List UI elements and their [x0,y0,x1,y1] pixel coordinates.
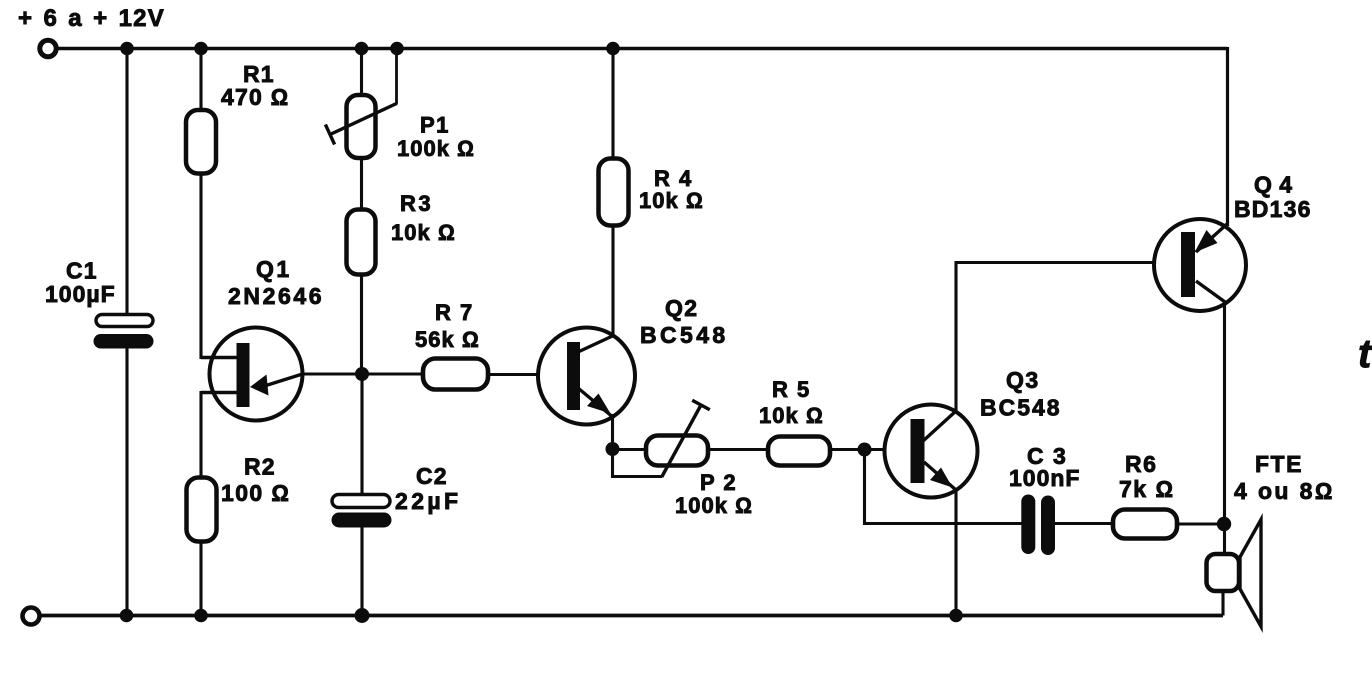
label R2 100ohm [221,454,290,507]
svg-text:+ 6 a + 12V: + 6 a + 12V [18,5,165,32]
svg-text:Q3: Q3 [1006,367,1040,393]
label R4 10k [639,166,704,213]
wire node to Q1 emitter [303,372,363,375]
transistor Q1 (UJT 2N2646) [201,328,303,421]
transistor Q2 BC548 [538,328,635,425]
svg-text:10k Ω: 10k Ω [639,188,704,213]
svg-text:100nF: 100nF [1009,465,1080,491]
wire node to speaker [1223,524,1226,554]
label R5 10k [759,377,824,428]
resistor R6 [1113,510,1177,539]
wire R4 to Q2 collector [611,226,614,337]
potentiometer P2 body [646,436,708,466]
svg-text:R2: R2 [244,454,276,480]
node top rail / R4 [606,42,620,56]
resistor R4 [599,159,629,226]
resistor R7 [423,359,488,390]
node top rail / P1 wiper [390,42,404,56]
svg-text:P1: P1 [420,113,450,138]
label +6 a +12V supply [18,5,165,32]
svg-text:BC548: BC548 [640,322,729,348]
wire speaker to bottom rail [1221,590,1224,616]
wire R1 to Q1 base2 [201,174,237,358]
node bottom rail / C1 [120,609,134,623]
svg-text:Q2: Q2 [665,295,698,321]
stray printed letter t at right edge [1358,332,1372,376]
wire Q4 collector down [1223,301,1226,524]
wire Q1 base1 to R2 [201,393,237,478]
wire node to C2 [360,374,363,495]
wire R7 to Q2 base [488,373,567,376]
wire feedback drop [865,450,1023,524]
svg-text:4 ou 8Ω: 4 ou 8Ω [1234,478,1335,504]
svg-text:10k Ω: 10k Ω [759,403,824,428]
label R7 56k [415,300,480,352]
svg-text:R 5: R 5 [772,377,811,402]
label Q3 BC548 [980,367,1062,421]
potentiometer P1 body [347,95,376,158]
wire bottom rail [41,614,1224,618]
svg-text:C2: C2 [416,463,448,489]
svg-text:BC548: BC548 [980,395,1062,421]
wire C1 bottom lead [125,349,128,616]
potentiometer P1 wiper [325,49,396,145]
wire Q3 collector to Q4 base [956,263,1181,413]
svg-text:7k Ω: 7k Ω [1119,476,1175,502]
node top rail / R1 [194,42,208,56]
label C3 100nF [1009,443,1080,491]
svg-text:t: t [1358,332,1372,376]
svg-text:FTE: FTE [1255,451,1303,477]
capacitor C1 [94,315,154,349]
svg-text:C1: C1 [66,258,98,284]
resistor R5 [768,437,830,466]
wire P2 to R5 [708,448,768,451]
label P2 100k [675,470,753,518]
svg-text:10k Ω: 10k Ω [391,220,456,245]
label P1 100k [397,113,475,162]
svg-text:56k Ω: 56k Ω [415,327,480,352]
svg-text:R 7: R 7 [435,300,474,325]
wire Q3 emitter to ground rail [954,490,957,616]
svg-text:P 2: P 2 [700,470,737,495]
label R1 470ohm [221,61,289,110]
svg-text:BD136: BD136 [1234,196,1312,222]
terminal 0V input [23,608,40,625]
label R6 7k [1119,451,1175,502]
wire node to R7 [362,372,423,375]
wire top rail [59,47,1228,50]
transistor Q4 BD136 [1154,219,1246,311]
svg-text:Q1: Q1 [256,256,292,282]
svg-text:R6: R6 [1125,451,1157,477]
wire node to P2 wiper [613,449,663,477]
capacitor C3 [1021,495,1055,556]
node top rail / C1 [120,42,134,56]
speaker FTE [1207,520,1262,627]
terminal +V input [40,40,56,56]
svg-text:2N2646: 2N2646 [228,283,324,309]
svg-text:100k Ω: 100k Ω [675,493,753,518]
label C2 22uF [395,463,461,514]
svg-text:470 Ω: 470 Ω [221,84,289,110]
wire C2 bottom lead [360,528,363,616]
label Q1 2N2646 [228,256,324,309]
resistor R2 [187,478,217,542]
svg-text:100k Ω: 100k Ω [397,136,475,161]
node Q3 base / feedback [858,443,872,457]
transistor Q3 BC548 [885,405,978,498]
label Q4 BD136 [1234,172,1312,223]
wire R4 top lead [611,49,614,159]
wire node to P2 [613,448,647,451]
wire R3 to node E [360,275,363,375]
svg-text:22µF: 22µF [395,488,461,514]
wire R1 top lead [199,49,202,111]
wire C3 to R6 [1055,522,1113,525]
node Q2 emitter / P2 [606,442,620,456]
wire R2 bottom lead [199,542,202,616]
label R3 10k [391,191,456,245]
wire R5 to Q3 base [830,448,911,451]
node bottom rail / R2 [194,609,208,623]
node output / speaker [1217,517,1231,531]
wire Q2 emitter to node [611,414,614,449]
wire C1 top lead [125,49,128,316]
node Q1 emitter / C2 / R7 [355,367,369,381]
svg-text:Q 4: Q 4 [1254,172,1294,198]
resistor R3 [347,210,376,275]
wire R6 to output node [1177,522,1224,525]
wire right vertical (top rail to Q4 emitter) [1226,47,1229,226]
node bottom rail / Q3 emitter [949,609,963,623]
potentiometer P2 wiper [662,400,710,477]
label FTE 4 ou 8 ohm [1234,451,1335,504]
label C1 100uF [45,258,116,308]
svg-text:100µF: 100µF [45,281,116,307]
capacitor C2 [332,495,392,528]
node top rail / P1 [355,42,369,56]
svg-text:100 Ω: 100 Ω [221,480,290,506]
wire P1 to R3 [360,158,363,210]
resistor R1 [186,110,216,174]
label Q2 BC548 [640,295,729,348]
node bottom rail / C2 [355,608,370,623]
svg-text:R3: R3 [400,191,433,216]
wire P1 top lead [360,49,363,96]
